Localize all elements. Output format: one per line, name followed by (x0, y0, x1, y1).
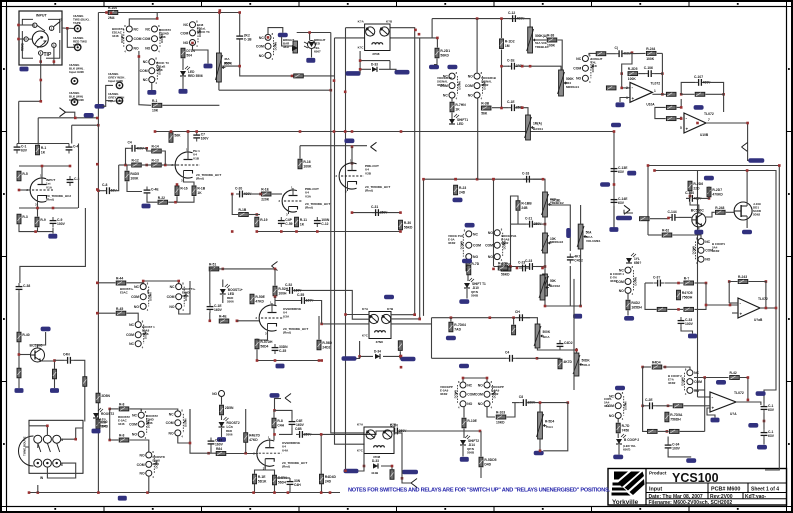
wire tone chain vert2 (510, 224, 512, 266)
wire r7d64 lnk (450, 318, 452, 322)
svg-text:NO: NO (132, 433, 137, 437)
wire VR1 wiper (222, 65, 239, 67)
node v1a2 (69, 165, 72, 168)
resistor R16a (175, 186, 188, 196)
wire relay feed pair A (346, 27, 365, 29)
ground v3a (276, 364, 285, 369)
wire k4 left seg (322, 323, 369, 325)
wire ry10 loop (141, 409, 178, 412)
node mid2 a (492, 268, 495, 271)
svg-text:3KD2: 3KD2 (668, 381, 676, 385)
wire pot chain bot (545, 296, 581, 306)
wire v2b plate (351, 147, 353, 164)
svg-text:+: + (686, 127, 689, 132)
wire x614 drop (613, 132, 615, 229)
wire relay feed pair B (335, 37, 365, 39)
svg-text:UP: UP (146, 290, 150, 294)
wire ry5 loop2 (179, 281, 190, 314)
wire ry12 a (617, 419, 619, 423)
resistor R42 (53, 369, 57, 379)
wire mid horizontal A (219, 89, 331, 91)
wire r42 d (19, 378, 55, 388)
wire br right vert (704, 378, 706, 432)
relay coil K2 (283, 38, 298, 53)
wire fet bias2 (696, 187, 709, 199)
resistor R65 (657, 307, 667, 311)
wire v3a bot (257, 350, 322, 361)
wire v2a grid2 (272, 193, 282, 195)
resistor R7D (616, 423, 630, 433)
resistor Rtop1 (169, 133, 181, 143)
svg-text:COM: COM (694, 380, 702, 384)
svg-text:U?A: U?A (730, 412, 737, 416)
wire fb3 (622, 53, 632, 88)
relay RY5C contacts (126, 319, 155, 349)
resistor R251 (648, 429, 658, 433)
node v1a gnd (34, 230, 37, 233)
wire v3b grid3 (226, 453, 258, 455)
svg-text:470KD: 470KD (712, 192, 723, 196)
label V3A (283, 307, 308, 335)
node relay1 bridge (156, 17, 159, 20)
svg-text:PCB# M600: PCB# M600 (711, 486, 740, 492)
svg-text:R-2D7: R-2D7 (712, 188, 722, 192)
wire q2 base (19, 342, 31, 368)
wire c4b vert (431, 318, 433, 359)
wire RY1C out (193, 46, 209, 64)
node etex2 (400, 366, 403, 369)
node k4 left (320, 323, 323, 326)
wire tune vertical (84, 387, 86, 422)
svg-text:J1: J1 (59, 17, 63, 21)
wire r4k7 lnk (537, 357, 560, 359)
label net gyr2 (716, 380, 726, 385)
svg-text:Sheet 1 of 4: Sheet 1 of 4 (751, 486, 779, 492)
wire led feed (297, 33, 331, 41)
wire tune a (25, 426, 47, 447)
wire oa2 out (706, 123, 748, 147)
svg-text:TIP: TIP (44, 52, 52, 58)
node v1a grid (18, 189, 21, 192)
svg-text:C-31: C-31 (371, 205, 378, 209)
svg-text:6567): 6567) (623, 447, 630, 451)
node gyr1 b (705, 282, 708, 285)
label net r2d1 (429, 65, 439, 70)
node v3a bot b (318, 359, 321, 362)
connector ring aux1 (69, 63, 85, 84)
wire oa2 in (681, 93, 694, 95)
svg-text:R-243: R-243 (738, 275, 747, 279)
svg-text:37N8: 37N8 (372, 52, 380, 56)
wire vol2 bot (580, 249, 582, 306)
resistor R56D (317, 340, 333, 350)
svg-text:C4: C4 (128, 141, 132, 145)
wire br lnk4 (643, 367, 648, 431)
svg-text:K?A: K?A (362, 307, 369, 311)
wire r81 lnk2 (130, 440, 149, 452)
capacitor C140 (685, 191, 702, 202)
wire c135 lnk (763, 398, 765, 403)
node tune a (46, 425, 49, 428)
resistor R51M (220, 405, 235, 415)
op-amp U10B (680, 112, 714, 137)
wire coil link (282, 37, 294, 47)
wire c1e drop (209, 269, 211, 321)
node fet c (708, 197, 711, 200)
svg-text:(Red): (Red) (46, 198, 54, 202)
svg-text:K?B: K?B (386, 20, 393, 24)
svg-text:2M4: 2M4 (108, 16, 115, 20)
svg-text:C-35: C-35 (279, 349, 286, 353)
resistor R2D7 (707, 187, 723, 197)
ground bus (118, 496, 127, 501)
svg-text:R-5D4: R-5D4 (545, 420, 554, 424)
wire rtop1 (171, 131, 197, 134)
svg-text:56K: 56K (481, 111, 488, 115)
label bright txt (314, 46, 321, 54)
svg-text:C-107: C-107 (694, 75, 703, 79)
wire oa3 in (706, 304, 738, 306)
vacuum tube V1B (172, 148, 201, 183)
svg-text:100K: 100K (628, 77, 637, 81)
wire v1a top (17, 143, 69, 145)
svg-text:NC: NC (143, 60, 148, 64)
svg-text:56KD: 56KD (404, 225, 413, 229)
wire k4 bottom (360, 341, 373, 356)
node x345 a (344, 130, 347, 133)
resistor R1D2b (501, 263, 511, 277)
wire top rail seg2 (432, 19, 530, 38)
wire c8b r (530, 402, 568, 404)
node k2 a (363, 465, 366, 468)
label net br (686, 458, 696, 463)
relay RY7 contacts (610, 265, 638, 296)
svg-text:COM: COM (167, 295, 175, 299)
node J1 bot a (39, 60, 42, 63)
capacitor C21 (525, 217, 542, 228)
node pot bot b (579, 305, 582, 308)
svg-text:220K: 220K (261, 197, 270, 201)
relay RY1B contacts (142, 24, 171, 54)
resistor R243 (738, 275, 748, 283)
wire c49 r (401, 430, 480, 432)
wire fet bias (686, 192, 690, 199)
svg-text:HiJK: HiJK (224, 61, 232, 65)
wire r83 d (245, 443, 247, 454)
svg-text:NC: NC (259, 36, 264, 40)
svg-text:24B: 24B (521, 206, 528, 210)
led BCOOP2 LED (616, 434, 639, 444)
wire c55 r (308, 301, 322, 324)
wire right rail 2 (655, 171, 777, 399)
wire c12 r (519, 19, 530, 27)
wire gyr1 e (668, 308, 684, 310)
svg-text:BASS2: BASS2 (550, 284, 560, 288)
connector ring aux4 (108, 92, 124, 104)
resistor R4K7 (558, 359, 573, 369)
resistor R83 (244, 433, 261, 443)
svg-text:10KD: 10KD (496, 420, 505, 424)
svg-text:DOWN: DOWN (120, 34, 124, 42)
svg-text:D-33: D-33 (372, 459, 379, 463)
svg-text:NC: NC (169, 412, 174, 416)
resistor R50E (250, 294, 266, 304)
svg-text:NC: NC (132, 414, 137, 418)
svg-text:R-8: R-8 (119, 403, 125, 407)
wire v1b top2 (139, 148, 166, 165)
resistor R drive (181, 48, 196, 58)
svg-text:C-106: C-106 (644, 66, 653, 70)
led BOOST1 LED (220, 284, 243, 296)
svg-text:C4N: C4N (63, 353, 70, 357)
wire st2 link (232, 194, 238, 215)
wire tune d (37, 443, 39, 448)
svg-text:R-23: R-23 (459, 186, 466, 190)
svg-text:(Red): (Red) (283, 331, 291, 335)
arrow off-page right (742, 143, 757, 161)
capacitor C47 (208, 438, 224, 448)
node x97 c (96, 282, 99, 285)
node v3b bot a (252, 491, 255, 494)
svg-text:K?A: K?A (358, 20, 365, 24)
svg-text:100K: 100K (130, 176, 139, 180)
node c23 (509, 265, 512, 268)
node st2 c (280, 230, 283, 233)
connector ring aux3 (108, 72, 126, 89)
wire k3 d2 (379, 61, 396, 71)
node pot bot a (544, 305, 547, 308)
led SHIFT1a (449, 114, 468, 126)
resistor R84 (216, 447, 226, 455)
svg-text:COM: COM (166, 421, 174, 425)
node st2 d (295, 230, 298, 233)
svg-text:NO: NO (473, 255, 478, 259)
wire r81 lnk (110, 439, 119, 441)
svg-text:37N8: 37N8 (376, 340, 384, 344)
wire led col3 (222, 295, 224, 303)
led coop1 yel (626, 253, 641, 265)
wire k4 in1 (346, 314, 370, 316)
resistor R1BBb (512, 325, 516, 335)
svg-text:R-2D5: R-2D5 (628, 67, 638, 71)
svg-text:R-38: R-38 (547, 34, 554, 38)
wire stage2 bottom (257, 231, 401, 233)
wire v1a plate (41, 166, 43, 176)
node n2de2 (661, 72, 664, 75)
node n2de (620, 72, 623, 75)
resistor R45 (116, 307, 126, 315)
ground V1B (142, 204, 151, 209)
resistor R1 (36, 145, 47, 155)
svg-text:V1A: V1A (46, 185, 53, 189)
svg-text:756DH: 756DH (670, 417, 681, 421)
wire r90 (97, 419, 99, 430)
svg-text:NO: NO (145, 46, 150, 50)
capacitor C8 (102, 183, 117, 194)
node st2 e (316, 230, 319, 233)
svg-text:COM: COM (137, 463, 145, 467)
wire gyr2 lnk4 (740, 378, 748, 400)
resistor R7HN (450, 102, 466, 112)
wire oa3 fb2 (749, 282, 766, 309)
wire led col (222, 269, 224, 270)
wire k2 out (394, 433, 402, 470)
svg-text:63V: 63V (21, 149, 28, 153)
node gyr2 fb2 (703, 376, 706, 379)
svg-text:DOWN: DOWN (459, 241, 463, 249)
wire c23 l (494, 266, 527, 268)
wire gyr2 lnk3 (694, 377, 729, 379)
wire r80 lnk2 (130, 409, 142, 412)
wire v1b chain (119, 164, 131, 166)
resistor R3B (481, 102, 491, 116)
arrow gnd sym (60, 108, 75, 118)
label net a1 (84, 113, 94, 118)
wire fb5 (681, 82, 695, 94)
svg-text:6567: 6567 (314, 50, 321, 54)
svg-text:556B: 556B (471, 294, 479, 298)
svg-text:COM: COM (256, 45, 264, 49)
label net c135 (756, 391, 766, 396)
wire c135 lnk3 (763, 439, 765, 445)
capacitor C18 (522, 172, 533, 183)
relay RY9 contacts (668, 368, 702, 397)
led BRIGHT (304, 38, 326, 49)
svg-text:56D4: 56D4 (278, 480, 286, 484)
svg-text:MIDDLE1: MIDDLE1 (566, 85, 579, 89)
svg-text:56K: 56K (174, 134, 181, 138)
resistor R23 (454, 185, 467, 195)
svg-text:56KD: 56KD (501, 272, 510, 276)
wire r44 lnk2 (127, 282, 144, 285)
capacitor C137 (761, 429, 775, 439)
wire c14 gnd (613, 206, 615, 227)
wire c21 l (511, 223, 527, 225)
relay RY10A contacts (118, 410, 151, 440)
arrow fet in (624, 205, 633, 214)
svg-text:63V: 63V (618, 170, 625, 174)
svg-text:TL072: TL072 (650, 81, 660, 85)
wire v3a plate2 (274, 297, 276, 305)
wire roostd b (221, 416, 223, 421)
ground relay1b (179, 89, 188, 94)
svg-text:500K(A): 500K(A) (535, 34, 547, 38)
wire r62 lnk (648, 234, 662, 236)
wire r40 u (18, 293, 20, 332)
node fet b (689, 195, 692, 198)
svg-text:K?B: K?B (387, 307, 394, 311)
svg-text:1M: 1M (505, 44, 510, 48)
svg-text:C4H: C4H (294, 483, 301, 487)
resistor R4E (219, 315, 229, 323)
svg-text:R-7D: R-7D (471, 262, 479, 266)
svg-text:COM: COM (465, 84, 473, 88)
svg-text:1K: 1K (300, 222, 305, 226)
svg-text:KdT:yao-: KdT:yao- (745, 494, 766, 500)
wire j109 drain (746, 171, 748, 203)
svg-text:NC: NC (467, 383, 472, 387)
resistor R18b (192, 186, 206, 196)
wire r45 lnk2 (127, 313, 139, 321)
ground led2 (92, 429, 101, 434)
capacitor C1Eb (207, 303, 223, 313)
svg-text:+: + (712, 406, 715, 411)
svg-text:R-51: R-51 (209, 263, 216, 267)
svg-text:DOWN: DOWN (680, 377, 684, 385)
svg-text:TL072: TL072 (758, 297, 768, 301)
svg-text:NC: NC (183, 23, 188, 27)
relay RY1A contacts (112, 24, 142, 54)
wire r4d4d (320, 434, 322, 492)
svg-text:5D62: 5D62 (753, 213, 761, 217)
wire ctex lnk (402, 470, 411, 483)
svg-text:100H: 100H (278, 291, 287, 295)
wire c39 link2 (74, 360, 85, 376)
node gyr1 c (677, 308, 680, 311)
svg-text:NC: NC (473, 232, 478, 236)
wire k4 out1 (391, 314, 415, 316)
svg-text:DOWN: DOWN (454, 390, 458, 398)
label net c13 (600, 182, 610, 187)
wire vert x574 (573, 279, 575, 390)
node main mid b (489, 316, 492, 319)
svg-text:56KD: 56KD (440, 53, 449, 57)
node r23 top (454, 178, 457, 181)
capacitor C42b (567, 254, 583, 264)
svg-text:NO: NO (259, 54, 264, 58)
node relay1 down (138, 55, 141, 58)
svg-text:3KD2: 3KD2 (437, 83, 445, 87)
node J1 bot b (53, 60, 56, 63)
wire J1 sleeve down (40, 55, 42, 101)
svg-text:3KD2: 3KD2 (501, 241, 509, 245)
svg-text:24D: 24D (325, 479, 332, 483)
ground V1A (48, 234, 57, 239)
svg-text:160V: 160V (214, 308, 223, 312)
node v3a top (274, 268, 277, 271)
resistor R248 (715, 206, 725, 214)
led SHIFT2 LED (460, 435, 479, 447)
wire gyr1 g (681, 327, 693, 334)
label V3B (282, 441, 307, 469)
svg-text:DOWN: DOWN (692, 246, 696, 254)
svg-text:NC: NC (170, 285, 175, 289)
node J1 out (66, 27, 69, 30)
label net tone vert (566, 228, 571, 238)
node v1b2 (145, 164, 148, 167)
wire vol vertical (239, 13, 241, 67)
svg-text:(Red): (Red) (282, 465, 290, 469)
svg-text:Product: Product (649, 471, 667, 476)
svg-text:C-38: C-38 (23, 284, 30, 288)
node ctop1 (195, 130, 198, 133)
node c18 (492, 178, 495, 181)
wire r16 up (299, 146, 301, 159)
svg-text:100K: 100K (646, 57, 655, 61)
node v3b plate (273, 433, 276, 436)
label net vpp (459, 364, 469, 369)
svg-text:U10A: U10A (646, 102, 655, 106)
svg-text:U10B: U10B (700, 133, 709, 137)
wire c15 l (501, 50, 503, 109)
svg-text:NC: NC (134, 27, 139, 31)
resistor R9 (35, 217, 46, 227)
svg-text:3446: 3446 (146, 421, 153, 425)
ground c14 (609, 227, 618, 232)
node k2 b (391, 465, 394, 468)
relay RY10C contacts (137, 450, 165, 479)
svg-text:R-16: R-16 (303, 160, 310, 164)
